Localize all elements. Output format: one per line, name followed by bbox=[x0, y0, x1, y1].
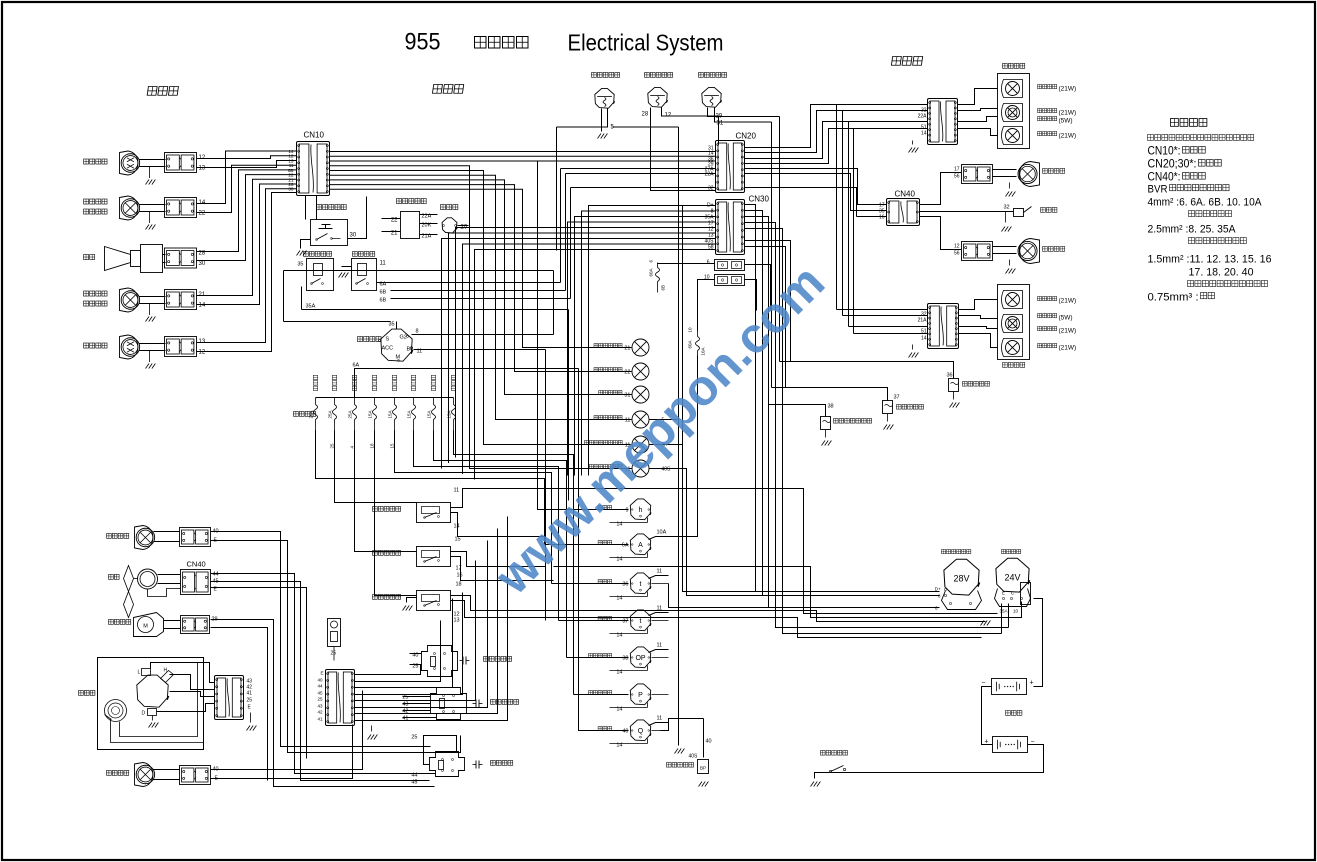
svg-text:28V: 28V bbox=[953, 574, 969, 584]
svg-text:14: 14 bbox=[921, 131, 927, 137]
svg-text:25: 25 bbox=[247, 698, 253, 704]
svg-text:8: 8 bbox=[416, 329, 419, 335]
svg-text:41: 41 bbox=[317, 717, 323, 722]
svg-text:t: t bbox=[640, 581, 642, 588]
svg-text:15A: 15A bbox=[388, 410, 393, 418]
svg-text:17. 18. 20. 40: 17. 18. 20. 40 bbox=[1189, 267, 1254, 279]
svg-text:(5W): (5W) bbox=[1059, 118, 1073, 125]
svg-text:30: 30 bbox=[199, 261, 206, 267]
svg-text:43: 43 bbox=[317, 704, 323, 709]
svg-text:14: 14 bbox=[921, 336, 927, 342]
svg-text:36: 36 bbox=[947, 373, 953, 379]
svg-text:(21W): (21W) bbox=[1059, 86, 1077, 93]
svg-text:E: E bbox=[1002, 591, 1005, 596]
svg-text:35A: 35A bbox=[999, 609, 1007, 614]
svg-text:2.5mm² :8. 25. 35A: 2.5mm² :8. 25. 35A bbox=[1148, 224, 1237, 236]
svg-text:−: − bbox=[981, 680, 985, 687]
svg-text:15: 15 bbox=[390, 443, 395, 449]
svg-text:h: h bbox=[639, 507, 643, 514]
svg-text:25: 25 bbox=[411, 735, 417, 741]
svg-text:15A: 15A bbox=[407, 410, 412, 418]
svg-text:6A: 6A bbox=[353, 363, 360, 369]
svg-text:18: 18 bbox=[370, 443, 375, 449]
svg-text:12: 12 bbox=[199, 350, 206, 356]
svg-text:31: 31 bbox=[624, 393, 630, 399]
svg-text:CN20: CN20 bbox=[736, 132, 757, 141]
svg-text:6B: 6B bbox=[380, 298, 387, 304]
svg-text:A: A bbox=[638, 542, 643, 549]
svg-text:44: 44 bbox=[317, 684, 323, 689]
svg-text:(21W): (21W) bbox=[1059, 110, 1077, 117]
svg-text:14: 14 bbox=[199, 303, 206, 309]
svg-text:15: 15 bbox=[455, 537, 461, 543]
svg-text:OP: OP bbox=[635, 655, 645, 662]
svg-text:11: 11 bbox=[454, 488, 460, 494]
svg-text:11: 11 bbox=[657, 643, 663, 649]
svg-text:13: 13 bbox=[199, 166, 206, 172]
svg-text:(21W): (21W) bbox=[1059, 133, 1077, 140]
svg-text:22A: 22A bbox=[918, 114, 928, 120]
svg-text:13: 13 bbox=[454, 618, 460, 624]
svg-text:40: 40 bbox=[317, 678, 323, 683]
svg-text:6: 6 bbox=[707, 260, 710, 266]
svg-text:0.75mm³ :: 0.75mm³ : bbox=[1148, 292, 1199, 304]
svg-text:11: 11 bbox=[657, 716, 663, 722]
svg-text:40: 40 bbox=[622, 729, 628, 735]
svg-text:E: E bbox=[320, 671, 323, 676]
svg-text:Electrical System: Electrical System bbox=[568, 30, 724, 56]
svg-text:9: 9 bbox=[625, 508, 628, 514]
svg-text:16: 16 bbox=[457, 573, 463, 579]
svg-text:11: 11 bbox=[657, 569, 663, 575]
svg-text:40S: 40S bbox=[662, 467, 672, 473]
svg-text:25A: 25A bbox=[348, 410, 353, 418]
svg-text:B0: B0 bbox=[407, 347, 414, 353]
svg-text:38: 38 bbox=[828, 404, 834, 410]
svg-text:P: P bbox=[638, 692, 643, 699]
svg-text:E: E bbox=[248, 705, 252, 711]
svg-text:21: 21 bbox=[624, 346, 630, 352]
svg-text:10: 10 bbox=[688, 327, 693, 333]
svg-text:15A: 15A bbox=[368, 410, 373, 418]
svg-text:CN10*:: CN10*: bbox=[1148, 144, 1181, 158]
svg-text:24V: 24V bbox=[1004, 573, 1020, 583]
svg-text:1.5mm² :11. 12. 13. 15. 16: 1.5mm² :11. 12. 13. 15. 16 bbox=[1148, 254, 1272, 266]
svg-text:60A: 60A bbox=[688, 340, 693, 348]
svg-text:(21W): (21W) bbox=[1059, 298, 1077, 305]
svg-text:10A: 10A bbox=[657, 530, 667, 536]
svg-text:(5W): (5W) bbox=[1059, 315, 1073, 322]
svg-text:6A: 6A bbox=[622, 543, 629, 549]
svg-text:25: 25 bbox=[331, 651, 337, 657]
svg-text:CN10: CN10 bbox=[304, 131, 325, 140]
svg-text:M: M bbox=[143, 624, 148, 630]
svg-text:40: 40 bbox=[706, 739, 712, 745]
svg-text:56: 56 bbox=[954, 174, 960, 180]
svg-text:955: 955 bbox=[405, 29, 441, 56]
svg-text:6B: 6B bbox=[661, 285, 666, 291]
svg-text:28: 28 bbox=[642, 112, 649, 118]
svg-text:CN40: CN40 bbox=[187, 560, 206, 569]
svg-text:25A: 25A bbox=[328, 410, 333, 418]
svg-text:BVR: BVR bbox=[1148, 184, 1168, 196]
svg-text:25A: 25A bbox=[309, 410, 314, 418]
svg-text:37: 37 bbox=[894, 395, 900, 401]
svg-text:BP: BP bbox=[700, 766, 706, 771]
svg-text:(21W): (21W) bbox=[1059, 345, 1077, 352]
svg-text:6: 6 bbox=[649, 260, 654, 263]
svg-text:43: 43 bbox=[402, 702, 408, 708]
svg-text:38: 38 bbox=[622, 656, 628, 662]
svg-text:C: C bbox=[1011, 591, 1015, 596]
svg-text:22: 22 bbox=[624, 370, 630, 376]
svg-text:40S: 40S bbox=[689, 754, 699, 760]
svg-text:32: 32 bbox=[708, 186, 714, 192]
svg-text:CN40*:: CN40*: bbox=[1148, 170, 1181, 184]
svg-text:ACC: ACC bbox=[382, 346, 394, 352]
svg-text:10: 10 bbox=[1013, 609, 1019, 614]
svg-text:4: 4 bbox=[350, 446, 355, 449]
svg-text:12: 12 bbox=[954, 244, 960, 250]
svg-text:42: 42 bbox=[317, 710, 323, 715]
svg-text:CN30: CN30 bbox=[749, 195, 770, 204]
svg-text:15A: 15A bbox=[427, 410, 432, 418]
svg-text:41: 41 bbox=[247, 691, 253, 697]
svg-text:32: 32 bbox=[1004, 205, 1010, 211]
svg-text:25: 25 bbox=[317, 697, 323, 702]
svg-text:44: 44 bbox=[213, 572, 219, 578]
svg-text:36: 36 bbox=[622, 582, 628, 588]
svg-text:CN40: CN40 bbox=[895, 190, 916, 199]
svg-text:CN20;30*:: CN20;30*: bbox=[1148, 157, 1197, 171]
svg-text:11: 11 bbox=[380, 261, 387, 267]
svg-text:22A: 22A bbox=[705, 172, 715, 178]
svg-text:18: 18 bbox=[456, 582, 462, 588]
svg-text:Q: Q bbox=[638, 728, 644, 735]
svg-text:35: 35 bbox=[389, 322, 395, 328]
svg-text:D+: D+ bbox=[935, 587, 941, 592]
svg-text:D: D bbox=[142, 711, 146, 717]
svg-text:17: 17 bbox=[954, 167, 960, 173]
svg-text:31: 31 bbox=[717, 121, 724, 127]
svg-text:t: t bbox=[640, 618, 642, 625]
svg-text:14: 14 bbox=[454, 524, 460, 530]
svg-text:45: 45 bbox=[317, 691, 323, 696]
svg-text:S: S bbox=[386, 337, 390, 343]
svg-text:G2: G2 bbox=[400, 335, 407, 341]
svg-text:(21W): (21W) bbox=[1059, 328, 1077, 335]
svg-text:+: + bbox=[1030, 680, 1034, 687]
svg-text:21A: 21A bbox=[918, 318, 928, 324]
svg-text:4mm² :6. 6A. 6B. 10. 10A: 4mm² :6. 6A. 6B. 10. 10A bbox=[1148, 197, 1263, 209]
svg-text:35A: 35A bbox=[306, 304, 316, 310]
svg-text:6B: 6B bbox=[380, 290, 387, 296]
svg-text:22: 22 bbox=[199, 211, 206, 217]
svg-text:16: 16 bbox=[879, 215, 885, 221]
svg-text:56: 56 bbox=[954, 251, 960, 257]
svg-text:37: 37 bbox=[622, 619, 628, 625]
svg-text:25: 25 bbox=[402, 695, 408, 701]
svg-text:60A: 60A bbox=[649, 268, 654, 276]
svg-text:8: 8 bbox=[938, 594, 941, 599]
svg-text:25: 25 bbox=[330, 443, 335, 449]
svg-text:35: 35 bbox=[297, 262, 303, 268]
svg-text:L: L bbox=[138, 670, 141, 676]
svg-text:30: 30 bbox=[350, 233, 357, 239]
